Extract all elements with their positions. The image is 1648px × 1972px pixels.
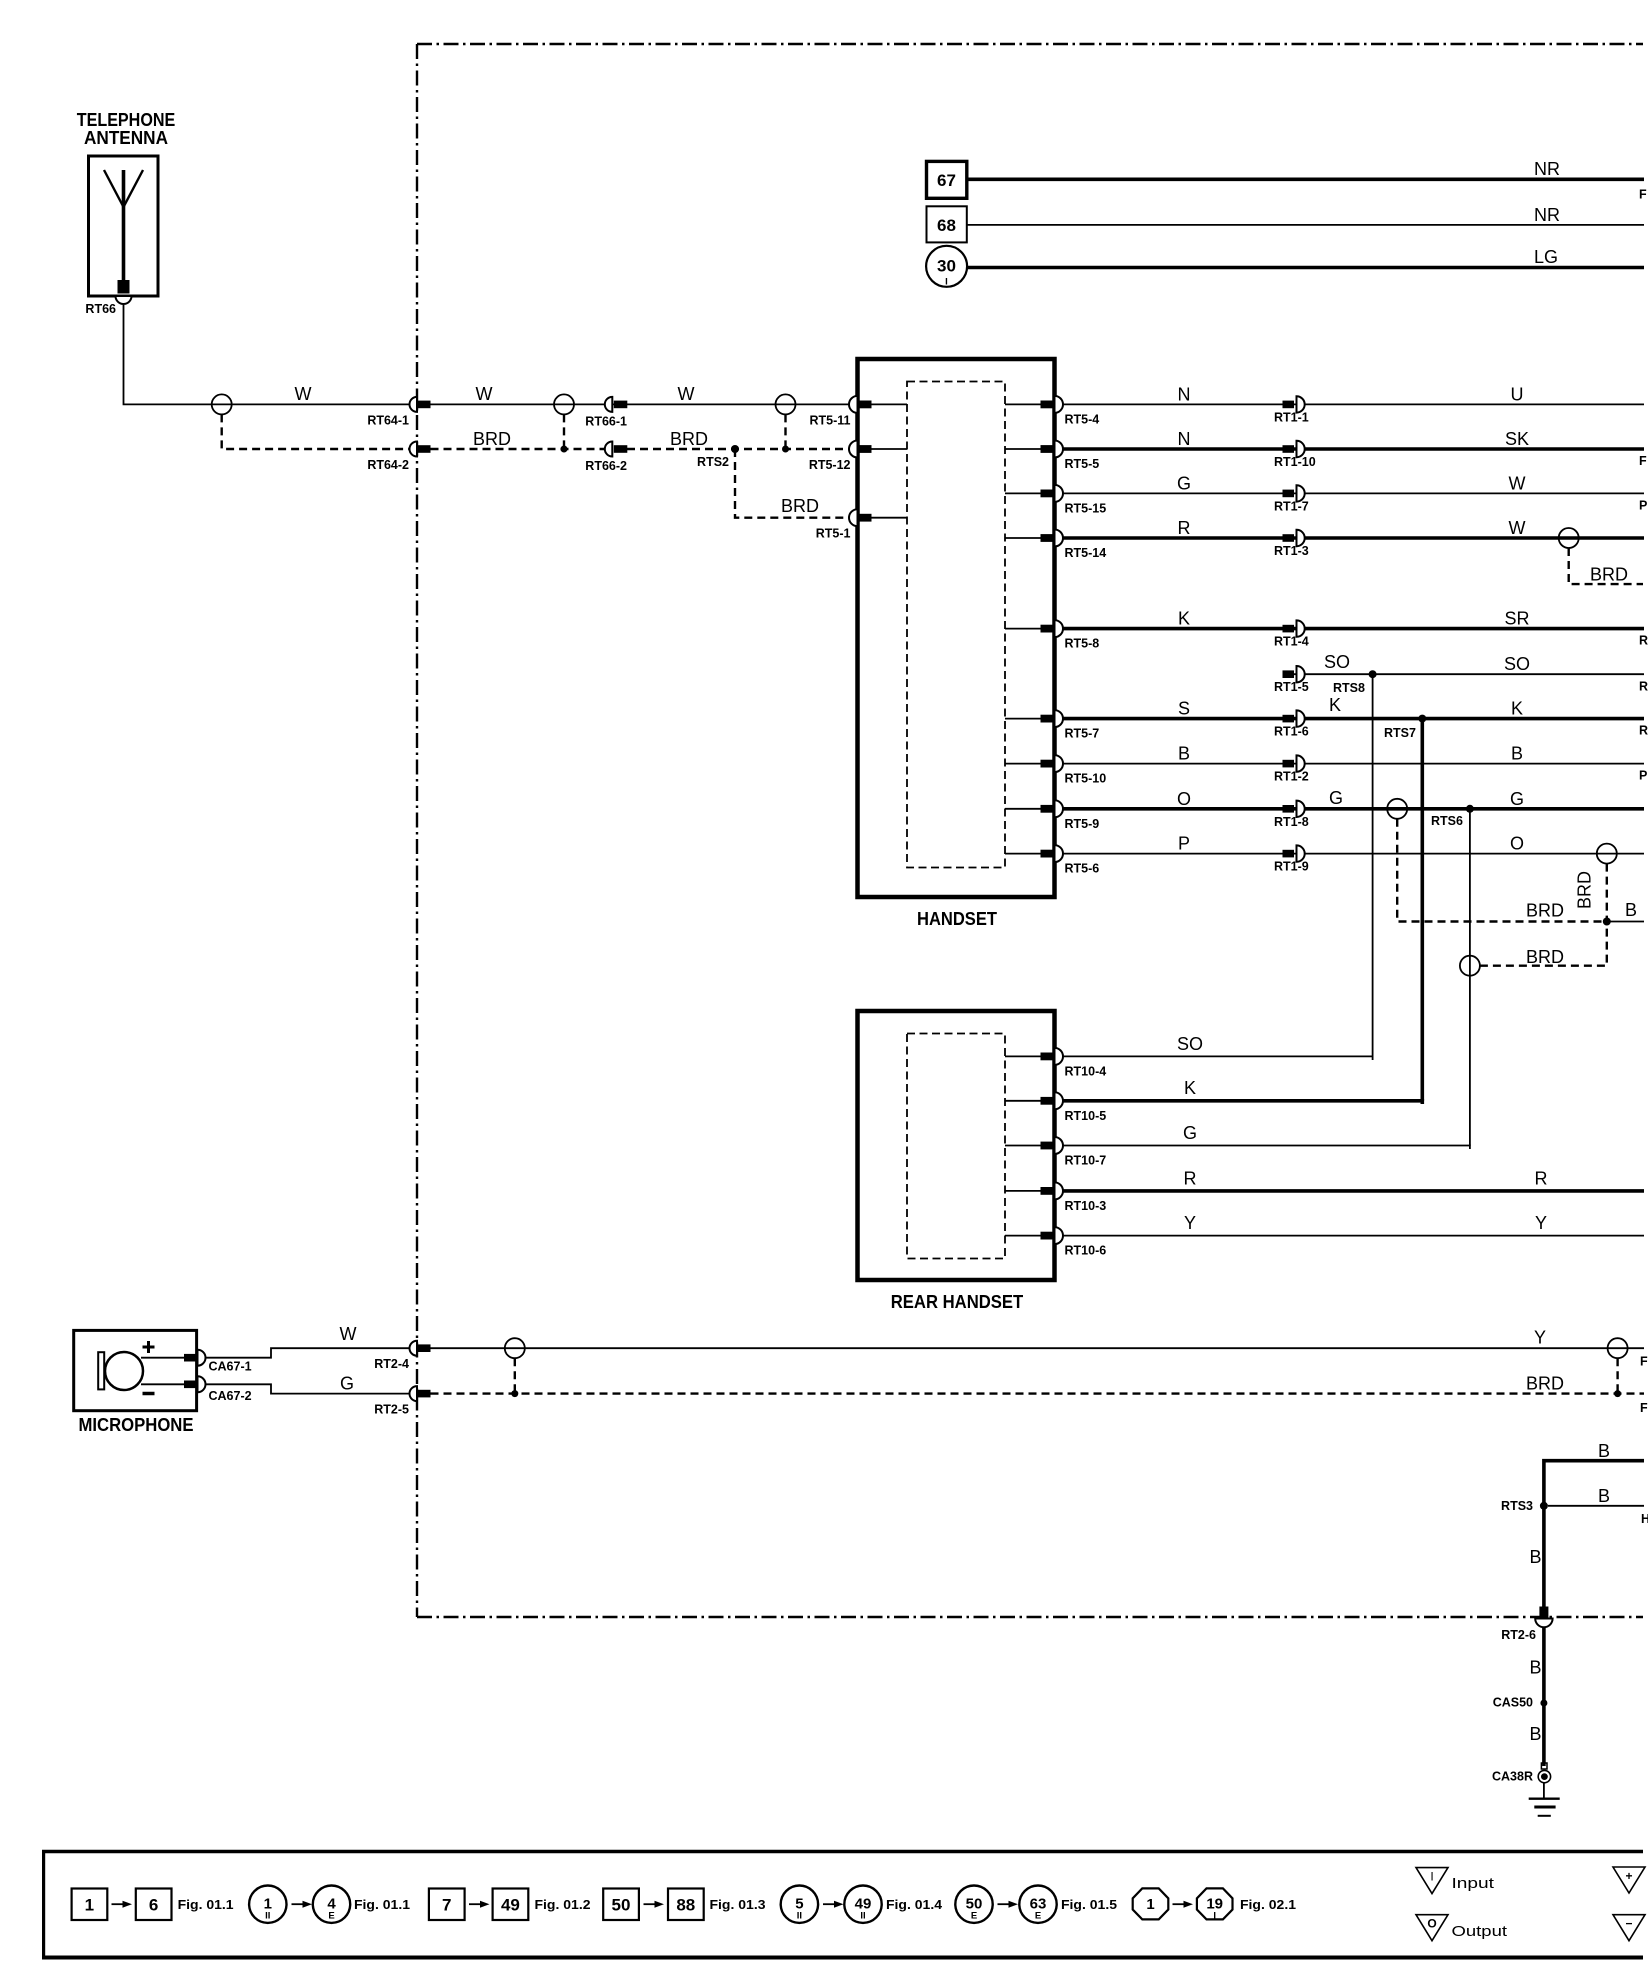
svg-text:RT5-6: RT5-6 [1065, 862, 1100, 876]
svg-text:E: E [328, 1911, 334, 1922]
wire SK [1294, 447, 1644, 451]
svg-text:NR: NR [1534, 159, 1560, 179]
connector 30 [926, 246, 967, 288]
pin RT5-6 [1005, 845, 1099, 876]
svg-text:II: II [860, 1911, 865, 1922]
svg-text:Fig. 01.5: Fig. 01.5 [1061, 1897, 1117, 1912]
dashed tap from splice [784, 414, 786, 449]
splice on RTS6 net [1460, 956, 1480, 976]
splice on Y wire [505, 1338, 525, 1358]
svg-text:RT1-6: RT1-6 [1274, 725, 1309, 739]
svg-text:I: I [945, 277, 948, 288]
svg-text:O: O [1510, 834, 1524, 854]
splice on Y wire [1608, 1338, 1628, 1358]
svg-text:H: H [1641, 1512, 1648, 1526]
legend square 1 [72, 1889, 108, 1921]
svg-text:+: + [1625, 1869, 1632, 1883]
svg-text:Y: Y [1184, 1213, 1196, 1233]
connector RT2-4 [374, 1341, 430, 1372]
svg-text:Y: Y [1534, 1328, 1546, 1348]
svg-text:R: R [1535, 1169, 1548, 1189]
legend circle 1/II [249, 1886, 286, 1923]
wire B [1063, 763, 1283, 765]
svg-text:B: B [1529, 1547, 1541, 1567]
svg-text:BRD: BRD [1526, 1374, 1564, 1394]
svg-text:50: 50 [612, 1896, 631, 1915]
svg-text:W: W [1509, 518, 1526, 538]
wire G microphone [206, 1384, 409, 1393]
wire W [1294, 492, 1644, 494]
svg-text:W: W [340, 1324, 357, 1344]
svg-text:RT5-4: RT5-4 [1065, 412, 1100, 426]
wire K [1294, 717, 1644, 721]
svg-text:RT1-7: RT1-7 [1274, 499, 1309, 513]
junction CAS50 [1540, 1700, 1547, 1707]
svg-text:O: O [1177, 789, 1191, 809]
svg-text:W: W [476, 384, 493, 404]
svg-text:K: K [1184, 1078, 1196, 1098]
svg-text:REAR HANDSET: REAR HANDSET [891, 1292, 1024, 1312]
svg-text:RT5-7: RT5-7 [1065, 727, 1100, 741]
wire to CA67-2 [141, 1383, 184, 1385]
junction RTS7 [1418, 715, 1426, 723]
svg-text:P: P [1178, 834, 1190, 854]
legend circle 63/E [1019, 1886, 1056, 1923]
wire G rear [1063, 1146, 1470, 1150]
svg-text:68: 68 [937, 216, 956, 235]
svg-text:SO: SO [1177, 1034, 1203, 1054]
connector RT1-9 [1274, 845, 1309, 873]
wire R rear [1063, 1189, 1644, 1193]
legend circle 50/E [955, 1886, 992, 1923]
minus symbol [1613, 1915, 1645, 1941]
connector RT64-1 [367, 397, 430, 428]
svg-text:RT1-3: RT1-3 [1274, 544, 1309, 558]
microphone symbol [98, 1352, 143, 1390]
wire Y [431, 1347, 1645, 1349]
svg-text:K: K [1178, 609, 1190, 629]
svg-text:Fig. 01.4: Fig. 01.4 [886, 1897, 943, 1912]
svg-text:N: N [1178, 384, 1191, 404]
REAR HANDSET connector box [858, 1011, 1055, 1280]
pin RT5-11 [810, 396, 908, 428]
splice on W wire [554, 394, 574, 414]
dashed BRD from G splice [1397, 819, 1602, 922]
eyelet CA38R [1492, 1763, 1551, 1784]
BRD dashed wire [627, 448, 849, 450]
wire Y rear [1063, 1235, 1644, 1237]
svg-text:S: S [1178, 699, 1190, 719]
svg-text:67: 67 [937, 171, 956, 190]
arrow [469, 1901, 490, 1908]
svg-text:B: B [1529, 1658, 1541, 1678]
dashed tap from splice [563, 414, 565, 449]
svg-text:CA38R: CA38R [1492, 1770, 1533, 1784]
svg-text:7: 7 [442, 1896, 451, 1915]
svg-text:RT2-5: RT2-5 [374, 1403, 409, 1417]
svg-text:RT5-9: RT5-9 [1065, 817, 1100, 831]
net RTS6 vertical [1469, 809, 1471, 1146]
legend square 6 [136, 1889, 172, 1921]
svg-text:RT10-5: RT10-5 [1065, 1109, 1107, 1123]
connector 68 [927, 206, 967, 242]
svg-text:SO: SO [1324, 652, 1350, 672]
svg-text:W: W [295, 384, 312, 404]
svg-text:BRD: BRD [1526, 947, 1564, 967]
dashed BRD tap vertical [1480, 864, 1607, 966]
svg-text:I: I [1430, 1870, 1433, 1884]
svg-text:Fig. 02.1: Fig. 02.1 [1240, 1897, 1296, 1912]
pin RT10-3 [1005, 1182, 1106, 1213]
wire from antenna [124, 305, 412, 404]
svg-text:R: R [1639, 680, 1648, 694]
junction RTS3 [1540, 1502, 1548, 1510]
svg-text:Input: Input [1452, 1875, 1496, 1892]
wire K [1063, 627, 1283, 631]
svg-text:CA67-1: CA67-1 [209, 1359, 252, 1373]
antenna pin RT66 [85, 280, 131, 316]
legend square 49 [493, 1889, 529, 1921]
svg-text:II: II [797, 1911, 802, 1922]
svg-text:RT66: RT66 [85, 302, 116, 316]
svg-text:B: B [1178, 744, 1190, 764]
pin RT5-7 [1005, 710, 1099, 741]
svg-text:6: 6 [149, 1896, 158, 1915]
HANDSET connector box [858, 359, 1055, 897]
svg-text:RT5-15: RT5-15 [1065, 501, 1107, 515]
antenna symbol [104, 170, 143, 284]
wire G [1063, 492, 1283, 494]
REAR HANDSET inner dashed box [907, 1034, 1005, 1259]
svg-text:BRD: BRD [670, 429, 708, 449]
input symbol [1416, 1868, 1448, 1894]
legend circle 5/II [781, 1886, 818, 1923]
pin RT10-5 [1005, 1092, 1106, 1123]
svg-text:RT2-4: RT2-4 [374, 1357, 409, 1371]
wire S [1063, 717, 1283, 721]
BRD branch to RT5-1 [735, 449, 849, 518]
svg-text:R: R [1639, 724, 1648, 738]
pin RT5-9 [1005, 800, 1099, 831]
wire O [1063, 807, 1283, 811]
junction on BRD [561, 446, 568, 453]
pin RT10-4 [1005, 1048, 1106, 1079]
wire SR [1294, 627, 1644, 631]
wire to CA67-1 [141, 1357, 184, 1359]
svg-text:R: R [1184, 1169, 1197, 1189]
wire R [1063, 536, 1283, 540]
wire B from RTS3 [1548, 1505, 1644, 1507]
wire B [1607, 921, 1644, 923]
pin RT5-10 [1005, 755, 1106, 786]
junction on BRD [511, 1390, 518, 1397]
svg-text:RTS3: RTS3 [1501, 1499, 1533, 1513]
svg-text:TELEPHONE: TELEPHONE [77, 110, 176, 130]
wire B [1294, 763, 1644, 765]
connector RT1-6 [1274, 710, 1309, 738]
connector RT66-2 [585, 442, 627, 474]
dashed BRD tap [1569, 548, 1643, 584]
svg-text:RT10-6: RT10-6 [1065, 1244, 1107, 1258]
svg-text:RT5-8: RT5-8 [1065, 637, 1100, 651]
svg-text:F: F [1639, 454, 1647, 468]
svg-text:RT66-2: RT66-2 [585, 459, 627, 473]
telephone antenna box [89, 156, 159, 296]
svg-text:G: G [1177, 473, 1191, 493]
dashed tap [1616, 1358, 1618, 1393]
wire NR from 67 [967, 178, 1644, 182]
svg-text:RT10-4: RT10-4 [1065, 1064, 1107, 1078]
telephone module boundary top [417, 43, 1643, 45]
telephone module boundary bottom [417, 1616, 1643, 1618]
svg-text:RT1-10: RT1-10 [1274, 455, 1316, 469]
svg-text:Output: Output [1452, 1923, 1509, 1940]
connector RT2-5 [374, 1386, 430, 1417]
splice on O wire [1597, 844, 1617, 864]
pin RT5-15 [1005, 485, 1106, 516]
svg-text:Fig. 01.1: Fig. 01.1 [178, 1897, 234, 1912]
junction on B wire [1603, 918, 1611, 926]
svg-text:HANDSET: HANDSET [917, 909, 997, 929]
svg-text:N: N [1178, 429, 1191, 449]
pin CA67-2 [184, 1376, 252, 1403]
svg-text:B: B [1625, 900, 1637, 920]
arrow [112, 1901, 133, 1908]
svg-text:30: 30 [937, 257, 956, 276]
svg-text:Fig. 01.3: Fig. 01.3 [710, 1897, 766, 1912]
svg-text:RT10-3: RT10-3 [1065, 1199, 1107, 1213]
svg-text:RT64-2: RT64-2 [367, 458, 409, 472]
connector RT1-7 [1274, 485, 1309, 513]
legend square 7 [429, 1889, 465, 1921]
svg-text:RT1-5: RT1-5 [1274, 680, 1309, 694]
svg-text:RT1-9: RT1-9 [1274, 860, 1309, 874]
legend octagon 1 [1133, 1888, 1169, 1919]
BRD dashed wire [431, 1392, 1645, 1394]
connector RT1-5 [1274, 666, 1309, 694]
wire G [1294, 807, 1644, 811]
connector RT64-2 [367, 442, 430, 473]
junction RTS2 [731, 445, 739, 453]
svg-text:RT5-12: RT5-12 [809, 458, 851, 472]
svg-text:1: 1 [1146, 1896, 1154, 1913]
svg-text:SK: SK [1505, 429, 1529, 449]
svg-text:RT2-6: RT2-6 [1501, 1628, 1536, 1642]
svg-text:RTS2: RTS2 [697, 455, 729, 469]
svg-text:Y: Y [1535, 1213, 1547, 1233]
wire O [1294, 853, 1644, 855]
splice on G wire [1387, 799, 1407, 819]
connector RT1-8 [1274, 801, 1309, 829]
pin RT5-4 [1005, 396, 1099, 427]
svg-text:RT1-4: RT1-4 [1274, 635, 1309, 649]
connector RT2-6 [1501, 1607, 1552, 1643]
svg-text:RT1-8: RT1-8 [1274, 815, 1309, 829]
HANDSET inner dashed box [907, 382, 1005, 868]
junction RTS6 [1466, 805, 1474, 813]
connector RT1-10 [1274, 441, 1316, 469]
arrow [998, 1901, 1019, 1908]
svg-text:LG: LG [1534, 247, 1558, 267]
svg-text:BRD: BRD [781, 496, 819, 516]
svg-text:II: II [265, 1911, 270, 1922]
svg-text:RT64-1: RT64-1 [367, 413, 409, 427]
connector RT66-1 [585, 397, 627, 429]
pin RT5-1 [816, 509, 907, 541]
splice on W wire [1559, 528, 1579, 548]
pin RT10-6 [1005, 1227, 1106, 1258]
arrow [644, 1901, 665, 1908]
svg-text:49: 49 [501, 1896, 520, 1915]
plus terminal [143, 1341, 155, 1353]
wire N [1063, 403, 1283, 405]
connector RT1-3 [1274, 530, 1309, 558]
ground [1529, 1783, 1560, 1816]
legend circle 4/E [313, 1886, 350, 1923]
legend circle 49/II [844, 1886, 881, 1923]
pin CA67-1 [184, 1350, 252, 1374]
svg-text:RTS6: RTS6 [1431, 814, 1463, 828]
pin RT5-8 [1005, 620, 1099, 651]
svg-text:RTS7: RTS7 [1384, 726, 1416, 740]
legend octagon 19/I [1197, 1888, 1233, 1921]
svg-text:F: F [1640, 1355, 1648, 1369]
svg-text:G: G [1329, 788, 1343, 808]
svg-text:RT1-1: RT1-1 [1274, 410, 1309, 424]
svg-text:B: B [1598, 1441, 1610, 1461]
wire N [1063, 447, 1283, 451]
arrow [823, 1901, 844, 1908]
pin RT5-14 [1005, 530, 1106, 561]
wire LG from 30 [967, 266, 1644, 270]
minus terminal [143, 1392, 155, 1396]
output symbol [1416, 1915, 1448, 1941]
svg-text:NR: NR [1534, 205, 1560, 225]
arrow [1173, 1901, 1194, 1908]
wire P [1063, 853, 1283, 855]
svg-text:P: P [1639, 498, 1647, 512]
svg-text:RT5-10: RT5-10 [1065, 772, 1107, 786]
wire K rear [1063, 1101, 1422, 1104]
svg-text:E: E [1035, 1911, 1041, 1922]
junction on BRD [1614, 1390, 1621, 1397]
arrow [292, 1901, 313, 1908]
pin RT10-7 [1005, 1137, 1106, 1168]
svg-text:G: G [1183, 1123, 1197, 1143]
legend square 88 [668, 1889, 704, 1921]
svg-text:W: W [1509, 473, 1526, 493]
svg-text:SR: SR [1504, 609, 1529, 629]
MICROPHONE box [74, 1330, 197, 1410]
svg-text:U: U [1511, 384, 1524, 404]
svg-text:MICROPHONE: MICROPHONE [79, 1415, 194, 1435]
svg-text:F: F [1639, 188, 1647, 202]
svg-text:BRD: BRD [1575, 871, 1595, 909]
wire W microphone [206, 1348, 409, 1358]
svg-text:I: I [1213, 1911, 1216, 1922]
svg-text:K: K [1329, 695, 1341, 715]
BRD dashed wire [431, 448, 605, 450]
svg-text:B: B [1511, 744, 1523, 764]
svg-text:G: G [340, 1374, 354, 1394]
pin RT5-5 [1005, 441, 1099, 472]
svg-text:BRD: BRD [1526, 901, 1564, 921]
wire W to handset [431, 403, 850, 405]
connector RT1-1 [1274, 396, 1309, 424]
net RTS8 vertical [1372, 674, 1374, 1056]
svg-text:RT5-11: RT5-11 [810, 413, 851, 427]
svg-text:W: W [678, 384, 695, 404]
wire W [1294, 536, 1644, 540]
splice on W wire [212, 394, 232, 414]
svg-text:CAS50: CAS50 [1493, 1696, 1533, 1710]
svg-text:RT5-14: RT5-14 [1065, 546, 1107, 560]
svg-text:P: P [1639, 769, 1647, 783]
svg-text:B: B [1529, 1724, 1541, 1744]
junction on BRD [782, 446, 789, 453]
svg-text:BRD: BRD [1590, 565, 1628, 585]
svg-text:88: 88 [676, 1896, 695, 1915]
wire B top [1544, 1461, 1644, 1607]
svg-text:SO: SO [1504, 654, 1530, 674]
connector RT1-2 [1274, 755, 1309, 783]
svg-text:RT5-1: RT5-1 [816, 527, 851, 541]
splice on W wire [776, 394, 796, 414]
svg-text:R: R [1178, 518, 1191, 538]
connector 67 [927, 161, 967, 198]
svg-text:RT5-5: RT5-5 [1065, 457, 1100, 471]
svg-text:ANTENNA: ANTENNA [84, 128, 168, 148]
svg-text:RT10-7: RT10-7 [1065, 1154, 1107, 1168]
pin RT5-12 [809, 441, 907, 473]
svg-text:1: 1 [85, 1896, 94, 1915]
net RTS7 vertical [1421, 719, 1425, 1101]
svg-text:CA67-2: CA67-2 [209, 1389, 252, 1403]
telephone module boundary left [416, 44, 418, 1617]
svg-text:B: B [1598, 1486, 1610, 1506]
svg-text:RTS8: RTS8 [1333, 681, 1365, 695]
junction RTS8 [1369, 670, 1377, 678]
wire SO rear [1063, 1056, 1373, 1060]
svg-text:Fig. 01.2: Fig. 01.2 [535, 1897, 591, 1912]
svg-text:G: G [1510, 789, 1524, 809]
svg-text:R: R [1639, 634, 1648, 648]
wire SO [1294, 673, 1644, 675]
svg-text:K: K [1511, 699, 1523, 719]
svg-text:BRD: BRD [473, 429, 511, 449]
svg-text:−: − [1625, 1917, 1632, 1931]
legend box [42, 1850, 1643, 1960]
svg-text:E: E [971, 1911, 977, 1922]
plus symbol [1613, 1867, 1645, 1893]
svg-text:RT66-1: RT66-1 [585, 414, 627, 428]
BRD dashed wire [222, 414, 409, 449]
dashed tap [514, 1358, 516, 1393]
svg-text:F: F [1640, 1401, 1648, 1415]
connector RT1-4 [1274, 620, 1309, 648]
svg-text:O: O [1427, 1917, 1436, 1931]
legend square 50 [603, 1889, 639, 1921]
wire B below RT2-6 [1542, 1628, 1546, 1767]
wire U [1294, 403, 1644, 405]
wire NR from 68 [967, 224, 1644, 226]
svg-text:Fig. 01.1: Fig. 01.1 [354, 1897, 410, 1912]
svg-text:RT1-2: RT1-2 [1274, 770, 1309, 784]
